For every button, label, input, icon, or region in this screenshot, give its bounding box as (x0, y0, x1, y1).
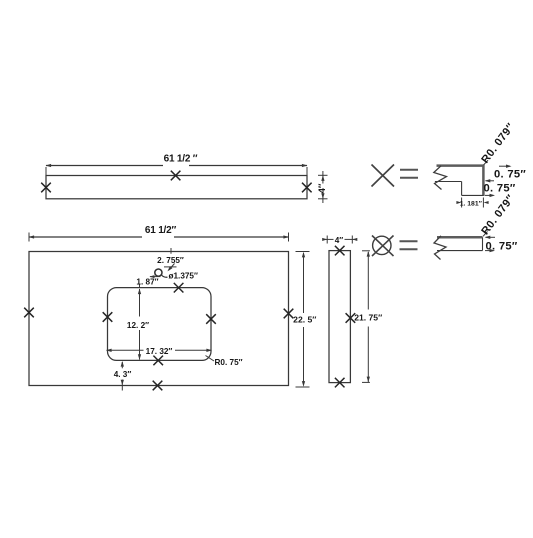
svg-text:0. 75″: 0. 75″ (484, 183, 516, 195)
svg-text:21. 75″: 21. 75″ (354, 313, 382, 323)
svg-text:17. 32″: 17. 32″ (146, 347, 173, 356)
svg-text:4″: 4″ (317, 183, 328, 193)
svg-text:1. 181″: 1. 181″ (460, 200, 483, 207)
svg-text:61 1/2″: 61 1/2″ (145, 225, 177, 236)
svg-text:0. 75″: 0. 75″ (494, 168, 526, 180)
svg-text:2. 755″: 2. 755″ (157, 256, 184, 265)
svg-text:ø1.375″: ø1.375″ (169, 272, 198, 281)
svg-text:22. 5″: 22. 5″ (293, 315, 316, 325)
svg-text:4″: 4″ (335, 236, 344, 245)
svg-text:R0. 75″: R0. 75″ (215, 358, 243, 367)
svg-text:61 1/2 ″: 61 1/2 ″ (164, 154, 198, 165)
svg-text:12. 2″: 12. 2″ (127, 321, 149, 330)
svg-text:4. 3″: 4. 3″ (114, 370, 132, 379)
